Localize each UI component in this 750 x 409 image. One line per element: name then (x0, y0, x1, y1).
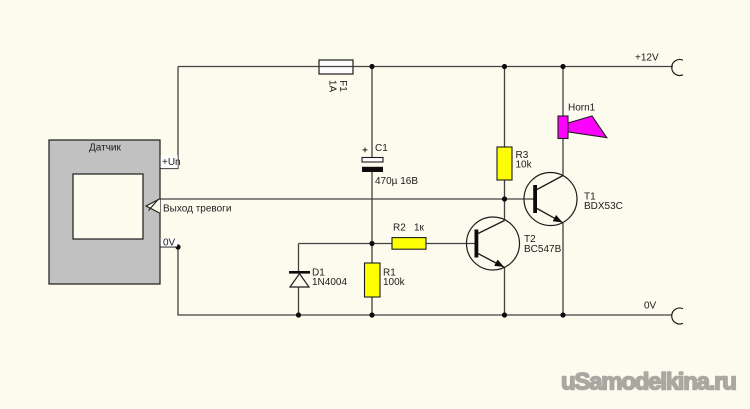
svg-text:BC547B: BC547B (524, 244, 562, 255)
svg-text:F1: F1 (337, 80, 348, 92)
svg-text:+12V: +12V (635, 53, 659, 64)
svg-text:470µ 16В: 470µ 16В (375, 176, 418, 187)
svg-text:uSamodelkina.ru: uSamodelkina.ru (561, 369, 736, 396)
svg-text:Horn1: Horn1 (568, 103, 596, 114)
svg-text:Датчик: Датчик (89, 143, 121, 154)
svg-text:1A: 1A (327, 80, 338, 93)
svg-text:0V: 0V (163, 238, 176, 249)
svg-text:10k: 10k (516, 160, 533, 171)
svg-text:1N4004: 1N4004 (312, 277, 347, 288)
svg-text:+Un: +Un (162, 157, 181, 168)
svg-text:BDX53C: BDX53C (584, 201, 623, 212)
svg-text:0V: 0V (644, 301, 657, 312)
svg-text:100k: 100k (383, 277, 406, 288)
svg-text:1к: 1к (414, 223, 425, 234)
svg-text:R2: R2 (393, 223, 406, 234)
svg-text:C1: C1 (375, 143, 388, 154)
svg-text:Выход тревоги: Выход тревоги (163, 204, 231, 215)
